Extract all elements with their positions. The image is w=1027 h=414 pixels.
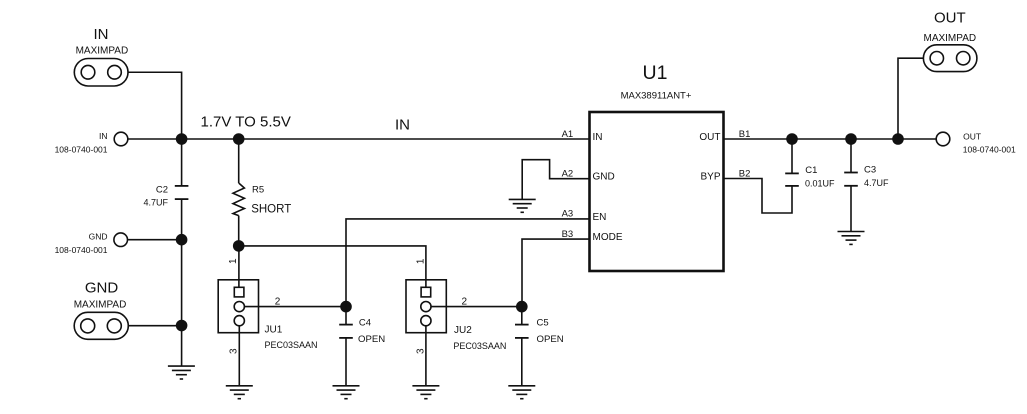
svg-text:C3: C3 — [864, 164, 876, 175]
svg-text:B2: B2 — [739, 168, 751, 179]
wire EN net (A3 to C4 node) — [346, 219, 590, 307]
ground symbol below C5 — [508, 386, 535, 399]
wire OUT net — [724, 138, 937, 140]
svg-text:108-0740-001: 108-0740-001 — [55, 145, 108, 155]
svg-text:4.7UF: 4.7UF — [864, 178, 889, 188]
junction GND at C2 line — [176, 234, 188, 246]
junction node below R5 — [233, 240, 245, 252]
svg-text:JU2: JU2 — [454, 325, 472, 336]
svg-text:JU1: JU1 — [265, 325, 283, 336]
svg-text:A2: A2 — [562, 169, 574, 180]
capacitor C3 — [844, 139, 858, 232]
wire JU1 pin 2 to C4 — [244, 306, 346, 308]
svg-text:OUT: OUT — [699, 132, 720, 143]
connector J_GND — [114, 233, 128, 247]
wire P_GND to GND net — [128, 325, 182, 327]
node VIN junction at R5 — [233, 133, 245, 145]
svg-text:IN: IN — [395, 117, 410, 134]
wire pad P_IN to node VIN — [128, 72, 182, 139]
svg-text:MAXIMPAD: MAXIMPAD — [76, 46, 129, 57]
svg-text:PEC03SAAN: PEC03SAAN — [265, 340, 318, 350]
svg-text:IN: IN — [99, 131, 108, 141]
jumper JU1 — [218, 280, 258, 333]
wire JU1 pin 3 to ground — [238, 326, 240, 386]
svg-text:2: 2 — [462, 296, 468, 307]
svg-text:3: 3 — [416, 348, 427, 354]
node VIN junction at C2 — [176, 133, 188, 145]
svg-text:PEC03SAAN: PEC03SAAN — [453, 341, 506, 351]
wire MODE net (B3 to C5 node) — [522, 239, 590, 307]
resistor R5 — [233, 139, 244, 246]
svg-text:BYP: BYP — [700, 172, 720, 183]
svg-text:OPEN: OPEN — [537, 334, 564, 345]
svg-text:A3: A3 — [562, 209, 574, 220]
svg-text:B1: B1 — [739, 129, 751, 140]
ground symbol at U1 GND pin — [509, 199, 536, 212]
junction GND pad at C2 line — [176, 320, 188, 332]
svg-text:IN: IN — [94, 26, 109, 43]
ground symbol below JU2 — [412, 386, 439, 399]
ground symbol below C2 — [168, 366, 195, 379]
svg-text:0.01UF: 0.01UF — [805, 178, 835, 188]
ground symbol below JU1 — [226, 386, 253, 399]
svg-text:OUT: OUT — [963, 131, 981, 141]
wire GND pin A2 to ground — [522, 160, 589, 200]
svg-text:108-0740-001: 108-0740-001 — [55, 245, 108, 255]
wire R5 node to JU2 pin 1 — [239, 246, 426, 287]
svg-text:3: 3 — [228, 348, 239, 354]
ground symbol below C3 — [838, 232, 865, 245]
svg-text:1: 1 — [228, 258, 239, 264]
wire R5 node to JU1 pin 1 — [238, 246, 240, 287]
wire JU2 pin 3 to ground — [425, 326, 427, 386]
connector J_IN — [114, 132, 128, 146]
junction C4 node — [340, 301, 352, 313]
junction OUT at C1 — [786, 133, 798, 145]
svg-text:U1: U1 — [643, 62, 668, 84]
svg-text:MODE: MODE — [593, 232, 623, 243]
capacitor C1 — [785, 139, 799, 186]
svg-text:IN: IN — [593, 132, 603, 143]
svg-text:C1: C1 — [805, 165, 817, 176]
junction OUT at C3 — [845, 133, 857, 145]
svg-text:C5: C5 — [537, 318, 549, 329]
wire JU2 pin 2 to C5 — [431, 306, 522, 308]
capacitor C5 — [515, 307, 529, 386]
ground symbol below C4 — [333, 386, 360, 399]
wire BYP pin B2 to C1 bottom — [724, 179, 793, 214]
svg-text:GND: GND — [85, 279, 119, 296]
svg-text:MAXIMPAD: MAXIMPAD — [923, 33, 976, 44]
pad P_OUT (MAXIMPAD) — [923, 45, 977, 72]
jumper JU2 — [406, 280, 446, 333]
svg-text:1.7V TO 5.5V: 1.7V TO 5.5V — [201, 113, 291, 130]
svg-text:GND: GND — [593, 172, 615, 183]
svg-text:1: 1 — [415, 258, 426, 264]
svg-text:SHORT: SHORT — [251, 203, 291, 215]
junction OUT at pad — [892, 133, 904, 145]
capacitor C2 — [175, 139, 189, 366]
svg-text:MAX38911ANT+: MAX38911ANT+ — [621, 91, 692, 102]
svg-text:GND: GND — [89, 232, 108, 242]
svg-text:4.7UF: 4.7UF — [143, 198, 168, 208]
wire OUT pad branch — [898, 58, 924, 139]
svg-text:EN: EN — [593, 212, 607, 223]
svg-text:MAXIMPAD: MAXIMPAD — [74, 300, 127, 311]
pad P_IN (MAXIMPAD) — [74, 59, 128, 87]
svg-text:108-0740-001: 108-0740-001 — [963, 144, 1016, 154]
connector J_OUT — [936, 132, 950, 146]
junction C5 node — [516, 301, 528, 313]
wire J_GND to GND net — [128, 239, 182, 241]
op-amp U1 (IC MAX38911ANT+) — [590, 112, 724, 271]
capacitor C4 — [339, 307, 353, 386]
svg-text:OPEN: OPEN — [358, 334, 385, 345]
svg-text:C2: C2 — [156, 185, 168, 196]
svg-text:B3: B3 — [562, 229, 574, 240]
svg-text:R5: R5 — [252, 184, 264, 195]
svg-text:2: 2 — [275, 296, 281, 307]
svg-text:OUT: OUT — [934, 9, 966, 26]
svg-text:A1: A1 — [562, 129, 574, 140]
pad P_GND (MAXIMPAD) — [74, 312, 128, 339]
wire main IN net — [128, 138, 590, 140]
svg-text:C4: C4 — [359, 318, 371, 329]
